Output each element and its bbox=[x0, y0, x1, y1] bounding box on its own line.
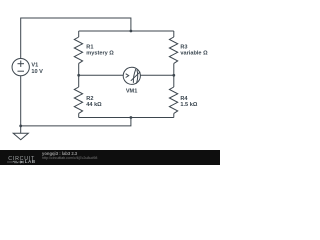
V1 plus sign bbox=[18, 63, 25, 65]
voltage source V1 bbox=[12, 58, 29, 75]
voltmeter VM1 bbox=[123, 67, 140, 84]
svg-text:44 kΩ: 44 kΩ bbox=[86, 102, 102, 108]
svg-text:R1: R1 bbox=[86, 44, 93, 50]
CircuitLab logo wire and diode bbox=[7, 161, 23, 163]
ground symbol bbox=[13, 133, 28, 140]
wire R4 bottom lead bbox=[173, 113, 175, 117]
wire VM1 to node B bbox=[140, 74, 173, 76]
wire R1 bottom to node A bbox=[78, 63, 80, 87]
junction dot feed/bridge top bbox=[130, 30, 133, 33]
VM1 probe arrow bbox=[126, 74, 129, 78]
wire bridge bottom node bbox=[79, 117, 174, 119]
resistor R4 bbox=[169, 87, 177, 113]
V1 minus sign bbox=[18, 70, 25, 72]
wire R3 bottom to node B bbox=[173, 63, 175, 87]
svg-text:VM1: VM1 bbox=[126, 89, 138, 95]
wire R3 top lead bbox=[173, 31, 175, 37]
wire bridge top node bbox=[79, 30, 174, 32]
resistor R3 bbox=[169, 37, 177, 63]
svg-text:10 V: 10 V bbox=[31, 69, 43, 75]
wire R1 top lead bbox=[78, 31, 80, 37]
footer bar bbox=[0, 150, 220, 165]
wire R2 bottom lead bbox=[78, 113, 80, 117]
wire top from V1 to feed corner bbox=[21, 18, 131, 58]
wire ground return bbox=[21, 118, 131, 126]
resistor R2 bbox=[74, 87, 82, 113]
svg-text:variable Ω: variable Ω bbox=[180, 51, 208, 57]
junction bridge bottom / ground return bbox=[130, 116, 133, 119]
junction ground bbox=[19, 125, 22, 128]
junction node B bbox=[172, 74, 175, 77]
VM1 meter scale arcs bbox=[133, 69, 135, 83]
svg-text:1.5 kΩ: 1.5 kΩ bbox=[180, 102, 197, 108]
svg-text:R3: R3 bbox=[180, 44, 187, 50]
svg-text:http://circuitlab.com/c/6j7c2u: http://circuitlab.com/c/6j7c2u8ud98 bbox=[42, 156, 97, 160]
junction node A bbox=[77, 74, 80, 77]
ground stub bbox=[20, 126, 22, 133]
resistor R1 bbox=[74, 37, 82, 63]
wire node A to VM1 bbox=[79, 74, 124, 76]
VM1 needle bbox=[131, 72, 140, 81]
wire V1 minus to ground junction bbox=[20, 76, 22, 126]
svg-text:LAB: LAB bbox=[25, 159, 36, 164]
svg-text:mystery Ω: mystery Ω bbox=[86, 51, 114, 57]
svg-text:V1: V1 bbox=[31, 63, 38, 69]
svg-text:R4: R4 bbox=[180, 96, 188, 102]
svg-text:R2: R2 bbox=[86, 96, 93, 102]
